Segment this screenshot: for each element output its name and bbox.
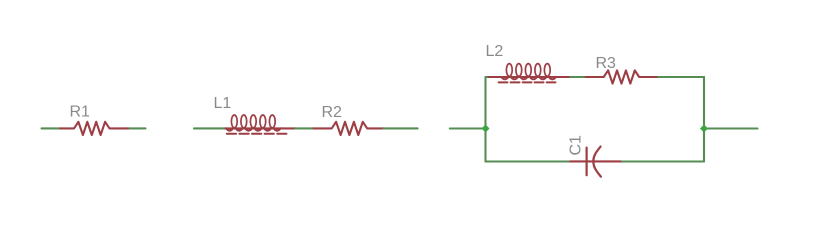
node A junction [482, 125, 490, 133]
resistor R3 [586, 70, 657, 83]
wire between L2 and R3 [570, 76, 586, 78]
wire top-left stub [486, 76, 491, 78]
wire left of L1 [194, 127, 226, 129]
svg-text:L1: L1 [214, 95, 232, 112]
wire right of R2 [383, 127, 417, 129]
capacitor C1 [570, 147, 621, 177]
wire between L1 and R2 [295, 127, 314, 129]
wire right vertical of loop [703, 77, 705, 162]
wire into node A [450, 127, 486, 129]
svg-text:R2: R2 [322, 104, 343, 121]
resistor R2 [314, 122, 384, 135]
wire left of R1 [42, 127, 61, 129]
wire left vertical of loop [484, 77, 486, 162]
svg-text:R1: R1 [70, 104, 91, 121]
svg-text:C1: C1 [568, 135, 585, 156]
wire top-right segment [656, 76, 704, 78]
node B junction [700, 125, 708, 133]
wire right of R1 [127, 127, 145, 129]
resistor R1 [60, 122, 128, 135]
svg-text:L2: L2 [486, 43, 504, 60]
svg-text:R3: R3 [596, 55, 617, 72]
inductor L1 [225, 115, 295, 134]
inductor L2 [489, 64, 571, 83]
wire bottom-left segment [486, 160, 571, 162]
wire out of node B [704, 127, 758, 129]
wire bottom-right segment [620, 160, 704, 162]
